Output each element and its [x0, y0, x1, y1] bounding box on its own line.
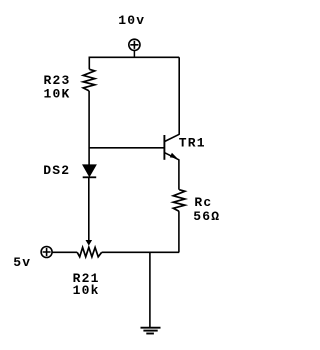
svg-text:DS2: DS2	[43, 163, 70, 178]
svg-text:10K: 10K	[44, 86, 71, 101]
svg-text:TR1: TR1	[179, 136, 206, 151]
svg-text:10k: 10k	[73, 283, 100, 298]
svg-text:56Ω: 56Ω	[193, 209, 220, 224]
svg-text:5v: 5v	[13, 255, 31, 270]
svg-text:10v: 10v	[118, 13, 145, 28]
